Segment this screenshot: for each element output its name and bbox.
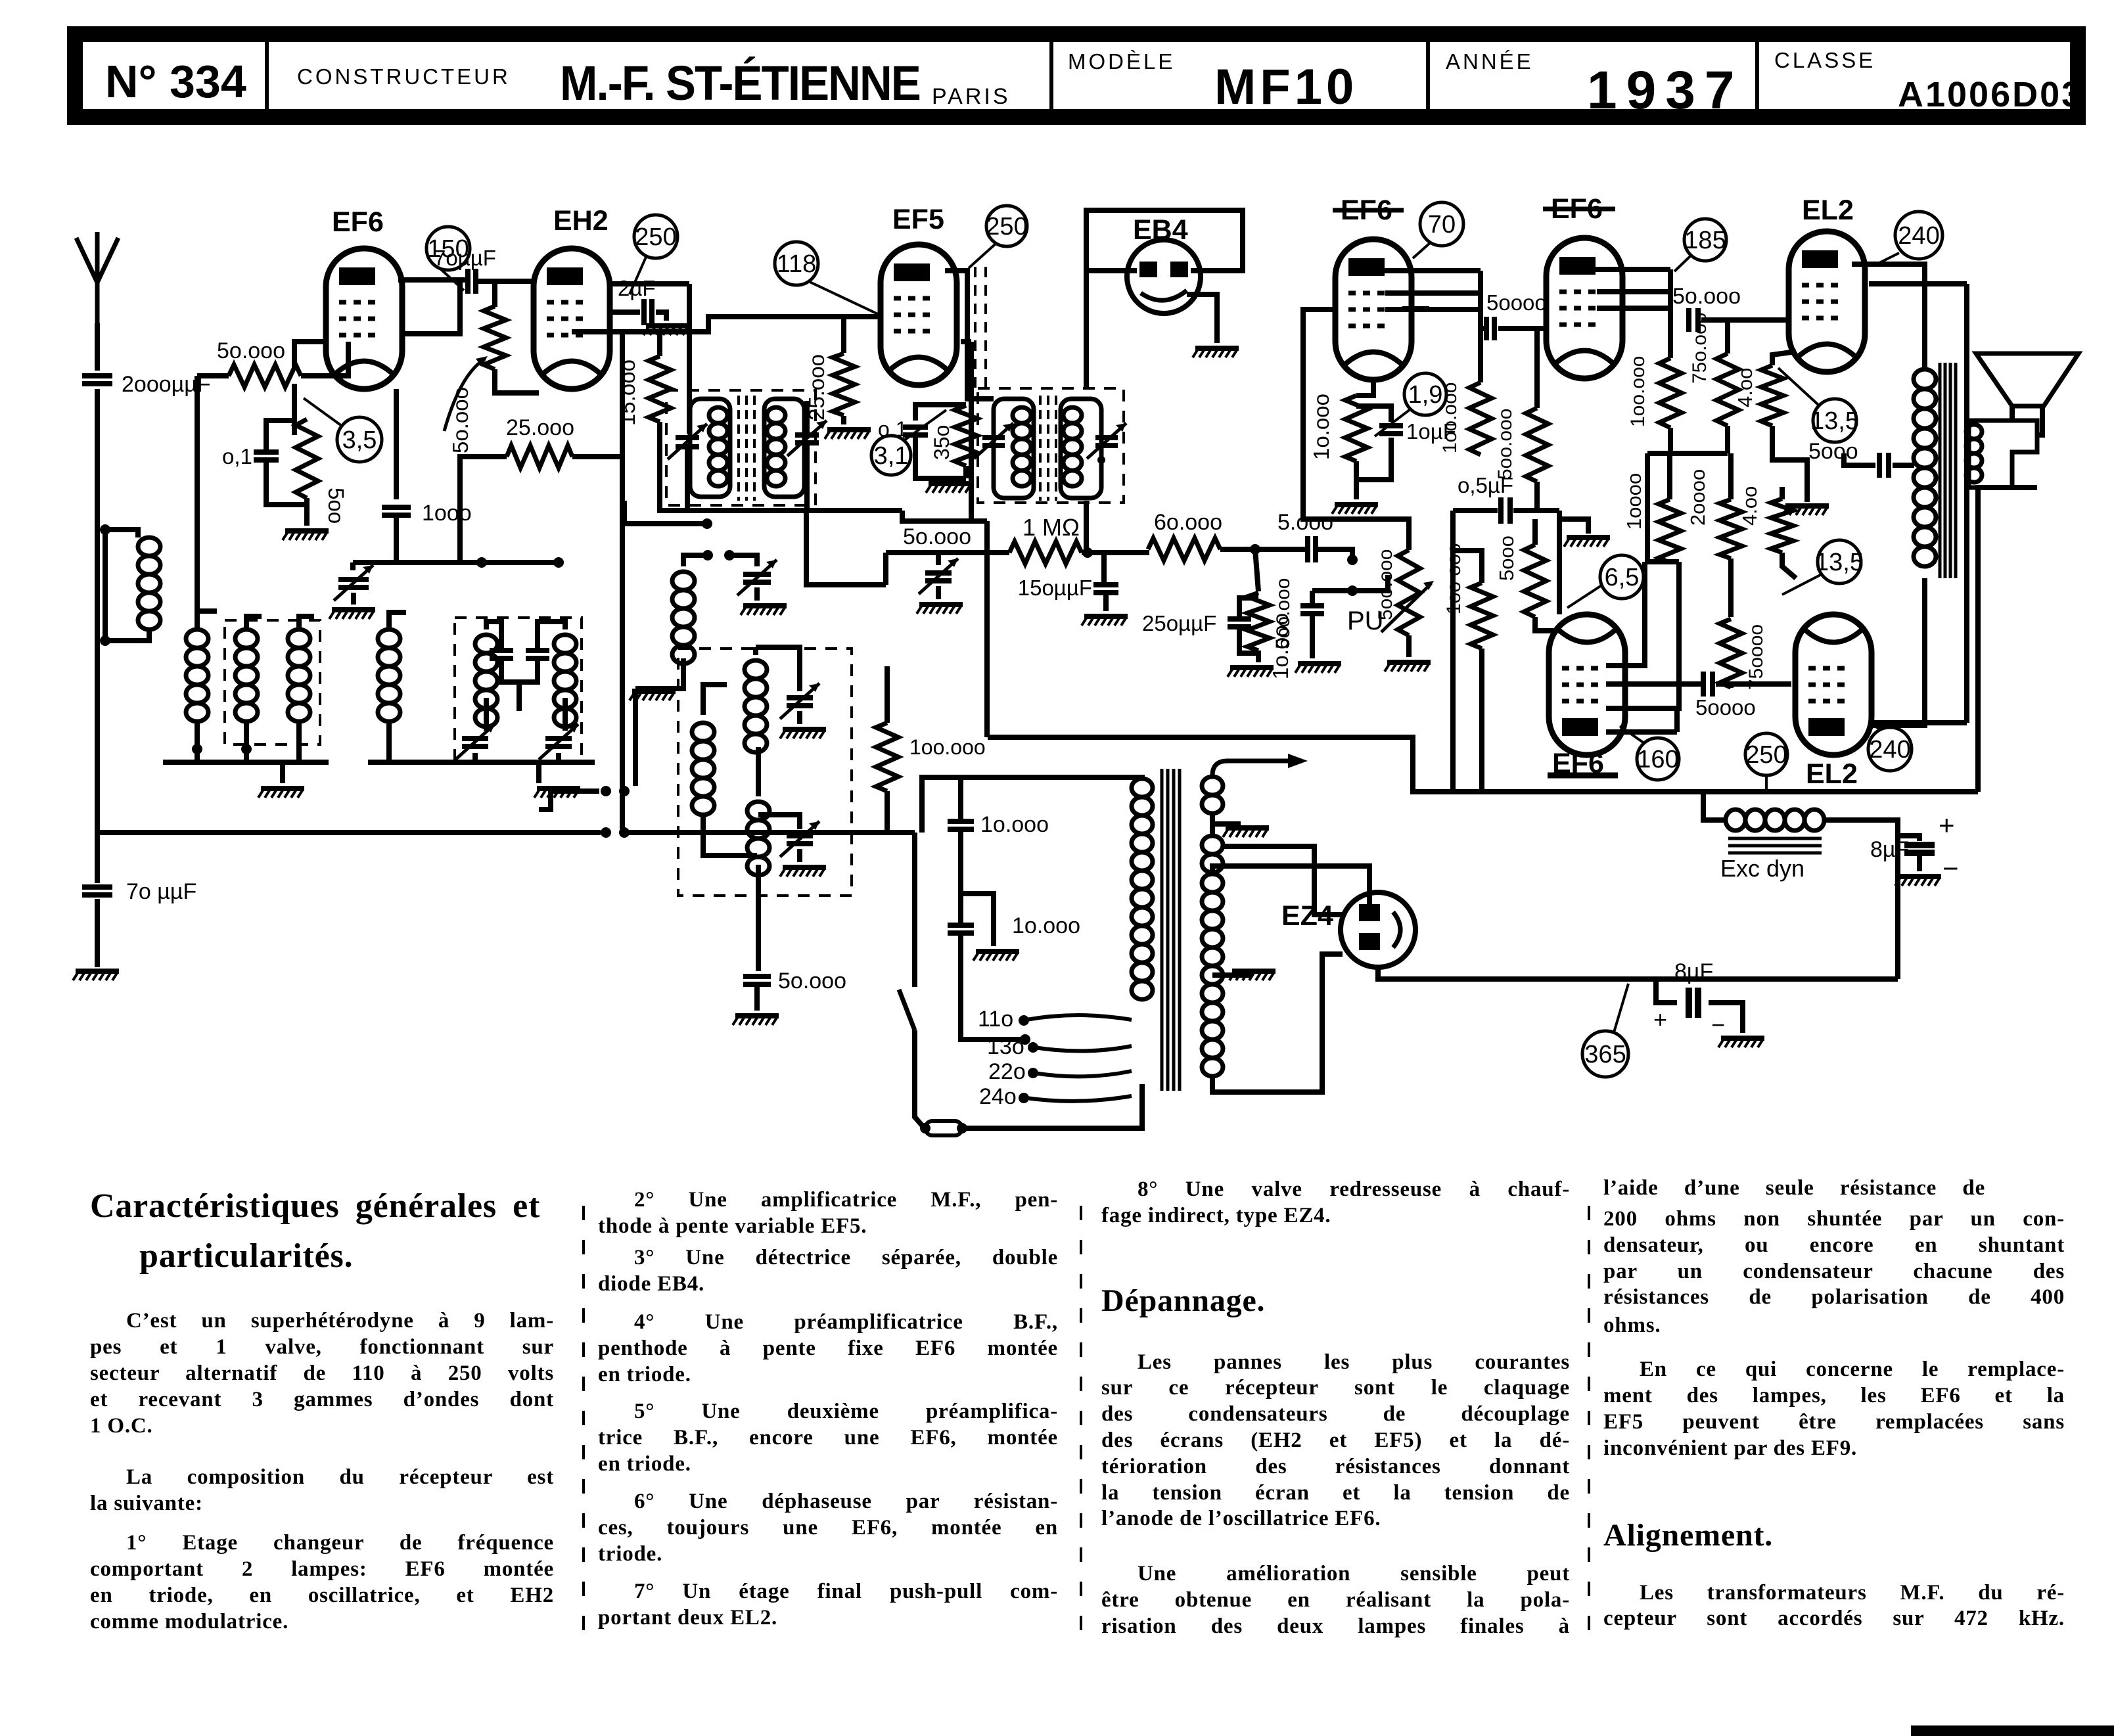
svg-text:1oo.ooo: 1oo.ooo — [1439, 382, 1461, 453]
IF2 core — [1039, 396, 1042, 501]
IF2 trimmer primary — [982, 438, 1005, 445]
tube EH2 modulator — [534, 248, 610, 389]
svg-text:5o.ooo: 5o.ooo — [1672, 284, 1741, 309]
resistor 750000 — [1720, 619, 1742, 687]
wire cathode network — [266, 460, 307, 505]
wire 05uF left — [1453, 508, 1498, 513]
mains switch — [912, 833, 917, 987]
osc coil left — [692, 723, 714, 741]
svg-text:1oooo: 1oooo — [1622, 473, 1645, 530]
svg-text:5ooo: 5ooo — [1808, 439, 1858, 464]
band coil 5 — [475, 635, 497, 653]
svg-text:2° Une amplificatrice M.F., pe: 2° Une amplificatrice M.F., pen- — [634, 1188, 1058, 1212]
ground mains caps — [976, 949, 1019, 954]
svg-text:6o.ooo: 6o.ooo — [1154, 510, 1222, 535]
ground osc 50000 — [735, 1013, 779, 1018]
svg-text:250: 250 — [635, 223, 676, 251]
choke Exc dyn — [1726, 810, 1745, 831]
IF2 shield extension — [974, 267, 977, 388]
svg-text:Une amélioration sensible peut: Une amélioration sensible peut — [1137, 1562, 1570, 1586]
osc coil right top — [745, 660, 767, 679]
svg-text:EH2: EH2 — [553, 205, 609, 237]
PU jack — [1347, 585, 1358, 596]
resistor 20000 splitter — [1720, 499, 1742, 559]
tube EL2 lower output — [1795, 614, 1872, 755]
band coil 6 — [554, 635, 576, 653]
wire HT bus lower — [988, 737, 1978, 792]
capacitor 1000 — [382, 507, 411, 515]
wire EH2 grid return bus — [572, 317, 881, 332]
svg-text:penthode à pente fixe EF6 mont: penthode à pente fixe EF6 montée — [598, 1336, 1058, 1360]
wire to PU switch — [1316, 549, 1352, 558]
svg-text:160: 160 — [1637, 746, 1678, 773]
resistor 5.000 splitter — [1524, 545, 1546, 617]
svg-text:185: 185 — [1684, 227, 1726, 254]
IF2 primary winding — [994, 399, 1034, 498]
svg-text:Les pannes les plus courantes: Les pannes les plus courantes — [1137, 1350, 1570, 1374]
header separator 4 — [1755, 34, 1759, 117]
circle 118 — [775, 242, 818, 285]
svg-text:l’anode de l’oscillatrice EF6.: l’anode de l’oscillatrice EF6. — [1101, 1507, 1381, 1530]
header separator 2 — [1049, 34, 1053, 117]
svg-text:EF6: EF6 — [1552, 748, 1604, 779]
svg-text:EF6: EF6 — [332, 206, 384, 238]
potentiometer 500.000 PU — [1398, 550, 1420, 635]
svg-text:5oo: 5oo — [324, 488, 348, 524]
ground 8uF main — [1898, 874, 1941, 879]
wire det node — [1082, 550, 1149, 555]
tube EF6 oscillator — [326, 248, 402, 389]
svg-text:la suivante:: la suivante: — [90, 1492, 203, 1515]
svg-text:+: + — [1653, 1006, 1667, 1033]
resistor 25.000 EF5 grid — [833, 354, 855, 415]
svg-text:35o: 35o — [930, 425, 954, 460]
svg-text:1° Etage changeur de fréquence: 1° Etage changeur de fréquence — [126, 1531, 554, 1555]
wire osc feed top — [624, 521, 704, 526]
capacitor 5.000 coupling — [1308, 536, 1316, 562]
wire grid node down — [301, 342, 348, 376]
svg-text:4° Une préamplificatrice B.F.,: 4° Une préamplificatrice B.F., — [634, 1310, 1058, 1334]
IF2 trimmer secondary — [1095, 438, 1118, 445]
resistor 100.000 splitter divider — [1471, 583, 1493, 649]
wire fuse to primary — [962, 1084, 1142, 1128]
ground tuning cap — [332, 607, 375, 612]
switch contacts 1 — [601, 786, 611, 796]
capacitor 10uF — [1379, 426, 1403, 434]
column separator 1 — [582, 1206, 585, 1643]
svg-text:trice B.F., encore une EF6, mo: trice B.F., encore une EF6, montée — [598, 1426, 1058, 1450]
wire 5000 cap — [1893, 463, 1914, 468]
svg-text:1o.ooo: 1o.ooo — [1268, 613, 1293, 679]
svg-text:Les transformateurs M.F. du ré: Les transformateurs M.F. du ré- — [1640, 1581, 2065, 1605]
svg-text:en triode.: en triode. — [598, 1452, 691, 1476]
svg-text:15.ooo: 15.ooo — [615, 359, 639, 426]
wire mains b down — [961, 933, 1025, 1039]
ground 25000b — [827, 427, 871, 432]
svg-text:risation des deux lampes final: risation des deux lampes finales à — [1101, 1614, 1570, 1638]
svg-text:6,5: 6,5 — [1605, 564, 1640, 591]
output transformer primary — [1914, 369, 1936, 389]
wire 25000 left — [460, 457, 507, 562]
svg-text:1ooo: 1ooo — [422, 501, 472, 526]
svg-text:5° Une deuxième préamplifica-: 5° Une deuxième préamplifica- — [634, 1400, 1058, 1423]
power transformer primary — [1132, 779, 1153, 797]
ground antenna — [76, 969, 119, 974]
circle 185 — [1684, 219, 1726, 261]
dashed box band B — [455, 618, 582, 762]
HT center tap — [1212, 969, 1250, 975]
svg-text:PARIS: PARIS — [932, 84, 1011, 109]
antenna coupling coil — [105, 530, 138, 537]
wire voice coil leads — [2010, 406, 2015, 421]
capacitor 10.000 mains b — [948, 925, 974, 933]
svg-text:1oo ooo: 1oo ooo — [1443, 543, 1465, 614]
svg-text:EF5: EF5 — [892, 204, 944, 235]
svg-text:1 O.C.: 1 O.C. — [90, 1414, 153, 1438]
svg-text:être obtenue en réalisant la p: être obtenue en réalisant la pola- — [1101, 1588, 1570, 1612]
ground EF5 cathode — [929, 481, 972, 486]
wire 25000 right to AVC bus — [572, 454, 622, 459]
svg-text:2µF: 2µF — [618, 276, 656, 300]
tube EB4 double diode — [1127, 240, 1201, 313]
circle 13,5 upper — [1813, 399, 1856, 442]
wire pot top to grid — [1303, 309, 1409, 550]
svg-text:densateur, ou encore en shunta: densateur, ou encore en shuntant — [1603, 1233, 2065, 1257]
svg-text:A1006D03: A1006D03 — [1898, 75, 2083, 114]
ground osc — [632, 689, 676, 694]
wire pot ground — [1406, 635, 1412, 657]
wire EH2 anode down IF1 — [687, 284, 692, 434]
wire EB4 cathode ground — [1187, 294, 1217, 343]
switch contacts 2 — [601, 827, 611, 838]
capacitor 70 uuF antenna — [82, 887, 112, 895]
svg-text:EF5 peuvent être remplacées sa: EF5 peuvent être remplacées sans — [1603, 1410, 2065, 1434]
resistor 10.000 splitter load a — [1659, 499, 1681, 562]
power transformer core — [1160, 769, 1164, 1091]
wire EF5 screen — [961, 339, 971, 344]
circle 3,1 — [871, 436, 911, 475]
svg-text:N° 334: N° 334 — [105, 56, 246, 107]
band coil 3 — [288, 629, 310, 648]
wire 1000 to grid bus — [394, 515, 399, 562]
wire 2uF — [610, 309, 640, 315]
circle 240 upper — [1895, 212, 1942, 259]
ground band A — [261, 786, 304, 791]
potentiometer 50.000 EH2 grid — [484, 306, 506, 369]
svg-text:5oooo: 5oooo — [1695, 695, 1756, 720]
heater winding EZ4 — [1202, 836, 1223, 854]
wire EF6c suppressor — [1402, 306, 1429, 311]
wire 5000 bottom — [1535, 617, 1559, 631]
wire 400 to EL2 cathode — [1772, 352, 1796, 365]
IF2 shield box — [978, 388, 1124, 503]
primary tap 130 — [1034, 1046, 1132, 1051]
header separator 3 — [1426, 34, 1430, 117]
heater winding top — [1202, 777, 1223, 795]
wire 25000b — [841, 317, 846, 353]
resistor 500 cathode — [296, 419, 318, 498]
resistor 50.000 grid leak — [229, 365, 301, 387]
capacitor 50.000 lower coupling — [1606, 681, 1701, 687]
svg-text:secteur alternatif de 110 à 25: secteur alternatif de 110 à 250 volts — [90, 1361, 554, 1385]
anode circle 150 — [426, 227, 470, 270]
band coil 2 — [235, 629, 258, 648]
svg-text:250: 250 — [986, 213, 1027, 240]
trimmer band B — [545, 739, 572, 746]
tube EF6 second BF — [1546, 238, 1622, 378]
svg-text:comme modulatrice.: comme modulatrice. — [90, 1610, 288, 1633]
svg-text:1o.ooo: 1o.ooo — [1012, 913, 1080, 938]
svg-text:70: 70 — [1428, 211, 1456, 239]
svg-text:EB4: EB4 — [1133, 214, 1188, 246]
svg-text:24o: 24o — [979, 1084, 1017, 1109]
svg-text:fage indirect, type EZ4.: fage indirect, type EZ4. — [1101, 1204, 1331, 1227]
svg-text:MF10: MF10 — [1214, 59, 1358, 115]
svg-text:diode EB4.: diode EB4. — [598, 1272, 704, 1296]
ground osc varcap — [743, 603, 787, 608]
svg-text:5o.ooo: 5o.ooo — [448, 387, 472, 453]
wire EL2 lower screen — [1872, 720, 1967, 725]
svg-text:triode.: triode. — [598, 1542, 662, 1566]
wire EZ4 heater feed — [1223, 846, 1343, 915]
trimmer band A — [462, 739, 488, 746]
svg-text:o,5µF: o,5µF — [1458, 473, 1513, 497]
svg-text:inconvénient par des EF9.: inconvénient par des EF9. — [1603, 1436, 1857, 1460]
wire splitter anode — [1606, 729, 1677, 735]
svg-text:ment des lampes, les EF6 et la: ment des lampes, les EF6 et la — [1603, 1384, 2065, 1407]
wire osc cathode vertical — [633, 689, 638, 786]
svg-text:75o.ooo: 75o.ooo — [1689, 313, 1711, 384]
svg-text:15oµµF: 15oµµF — [1018, 576, 1092, 600]
svg-text:4.oo: 4.oo — [1738, 486, 1761, 526]
svg-text:365: 365 — [1584, 1041, 1626, 1068]
svg-text:2oooo: 2oooo — [1686, 469, 1709, 526]
column separator 2 — [1080, 1206, 1082, 1643]
capacitor 50.000 coupling cd — [1486, 317, 1494, 340]
svg-text:térioration des résistances do: térioration des résistances donnant — [1101, 1455, 1570, 1478]
capacitor 70uuF coupling — [468, 269, 476, 294]
tube EF6 first BF — [1335, 239, 1412, 380]
capacitor 0,1 EF5 cathode — [903, 427, 928, 435]
osc trimmer bottom — [787, 836, 813, 844]
wire EZ4 anode top — [1224, 866, 1369, 904]
svg-text:Exc dyn: Exc dyn — [1720, 855, 1804, 882]
circle 13,5 lower — [1818, 540, 1861, 583]
svg-text:ohms.: ohms. — [1603, 1313, 1661, 1337]
svg-text:particularités.: particularités. — [139, 1237, 353, 1275]
svg-text:6° Une déphaseuse par résistan: 6° Une déphaseuse par résistan- — [634, 1490, 1058, 1513]
svg-text:5o.ooo: 5o.ooo — [778, 969, 846, 994]
svg-text:3,1: 3,1 — [874, 442, 909, 470]
circle 250 lower — [1745, 733, 1787, 775]
circle 160 — [1637, 738, 1679, 780]
wire EF6c anode strap — [1384, 268, 1481, 273]
resistor 10.000 cathode — [1345, 396, 1367, 461]
wire HT bottom to EZ4 — [1212, 954, 1343, 1092]
IF1 shield box — [666, 390, 816, 505]
svg-text:25oµµF: 25oµµF — [1142, 611, 1216, 635]
output transformer core — [1939, 363, 1942, 578]
svg-text:Alignement.: Alignement. — [1603, 1518, 1773, 1553]
ground pot — [1387, 660, 1431, 665]
svg-text:5o.ooo: 5o.ooo — [903, 524, 971, 549]
svg-text:75oooo: 75oooo — [1745, 624, 1767, 690]
wire EF6 grid left — [294, 342, 326, 368]
capacitor 8uF second — [1656, 979, 1677, 1003]
svg-text:7° Un étage final push-pull co: 7° Un étage final push-pull com- — [634, 1580, 1058, 1603]
svg-text:4.oo: 4.oo — [1734, 368, 1757, 407]
wire AVC vertical — [620, 332, 625, 829]
tube EF6 phase splitter — [1549, 614, 1625, 755]
capacitor 10.000 PU — [1312, 588, 1352, 593]
primary tap 220 — [1034, 1071, 1132, 1076]
ground band B — [537, 786, 580, 791]
wire grid res to coil line — [197, 373, 229, 378]
svg-text:−: − — [1942, 853, 1959, 884]
svg-text:5o.ooo: 5o.ooo — [217, 338, 285, 363]
svg-text:ces, toujours une EF6, montée: ces, toujours une EF6, montée en — [598, 1516, 1058, 1540]
IF1 trimmer secondary — [804, 401, 810, 434]
svg-text:200 ohms non shuntée par un co: 200 ohms non shuntée par un con- — [1603, 1207, 2065, 1231]
wire splitter verticals — [1645, 559, 1679, 564]
IF1 secondary winding — [764, 399, 804, 497]
IF1 core — [737, 396, 740, 501]
wire 100k-75k bottoms — [1668, 428, 1673, 453]
svg-text:Dépannage.: Dépannage. — [1101, 1283, 1265, 1318]
primary tap 110 — [1026, 1015, 1132, 1020]
wire 5000 top — [1532, 519, 1538, 545]
wire anode branch to tube — [403, 281, 460, 334]
ground 8uF second — [1721, 1036, 1764, 1041]
ground 2uF — [646, 323, 689, 329]
svg-text:EL2: EL2 — [1806, 758, 1858, 790]
ground 400 — [1785, 503, 1829, 509]
svg-text:25.ooo: 25.ooo — [804, 354, 829, 421]
HT secondary winding — [1202, 874, 1223, 892]
wire IF1 bottom rail — [657, 508, 902, 513]
svg-text:+: + — [1939, 810, 1955, 840]
wire 10000b ground — [961, 894, 994, 946]
wire AVC det line — [886, 550, 1009, 555]
wire bus to switch — [670, 830, 915, 835]
resistor 1 MOhm — [1009, 541, 1082, 564]
svg-text:l’aide d’une seule résistan: l’aide d’une seule résistance de — [1603, 1176, 1985, 1200]
tube EF5 IF amplifier — [881, 244, 957, 385]
svg-text:1oo.ooo: 1oo.ooo — [1627, 356, 1649, 427]
svg-text:o,1: o,1 — [222, 444, 252, 468]
svg-text:La composition du récepteur es: La composition du récepteur est — [126, 1465, 554, 1489]
wire exc dyn right — [1824, 820, 1898, 979]
header separator 1 — [265, 34, 269, 117]
wire to ground — [95, 899, 100, 967]
osc trimmer top — [787, 698, 813, 706]
variable tuning capacitor antenna — [350, 562, 356, 570]
svg-text:3° Une détectrice séparée, dou: 3° Une détectrice séparée, double — [634, 1246, 1058, 1269]
circle 365 — [1582, 1031, 1628, 1077]
svg-text:3,5: 3,5 — [342, 426, 377, 454]
IF1 primary winding — [690, 399, 730, 497]
resistor 350 EF5 cathode — [955, 405, 977, 466]
svg-text:1o.ooo: 1o.ooo — [980, 812, 1049, 837]
circle 70 — [1420, 202, 1463, 246]
wire primary top — [922, 777, 1142, 833]
wire 20000 bottom — [1728, 559, 1734, 617]
circle 240 lower — [1868, 727, 1912, 771]
ground 150uuF — [1084, 614, 1128, 619]
header box — [75, 34, 2078, 117]
resistor 400 lower — [1771, 499, 1793, 553]
capacitor 50.000 coupling dEL2 — [1689, 308, 1698, 332]
resistor 100.000 anode load EF6c — [1469, 382, 1492, 455]
svg-text:13,5: 13,5 — [1810, 407, 1859, 435]
wire EB4 output down — [1084, 501, 1089, 553]
speaker voice coil — [1969, 421, 2037, 488]
wire EL2 screen — [1869, 281, 1967, 286]
svg-text:5oo.ooo: 5oo.ooo — [1494, 409, 1516, 480]
svg-text:M.-F. ST-ÉTIENNE: M.-F. ST-ÉTIENNE — [560, 56, 920, 110]
svg-text:1,9: 1,9 — [1408, 381, 1443, 409]
wire pot bottom — [495, 369, 539, 393]
svg-text:240: 240 — [1869, 736, 1910, 764]
heater arrow — [1212, 761, 1300, 775]
resistor 15.000 screen feed — [649, 356, 671, 422]
IF2 secondary winding — [1061, 399, 1101, 498]
wire EB4 frame — [1086, 210, 1243, 388]
resistor 400 bias upper — [1761, 365, 1783, 426]
svg-text:thode à pente variable EF5.: thode à pente variable EF5. — [598, 1214, 867, 1238]
wire 15000 — [657, 332, 662, 356]
wire osc bottom out — [756, 865, 761, 971]
svg-text:des condensateurs de découplag: des condensateurs de découplage — [1101, 1402, 1570, 1426]
svg-text:1o.ooo: 1o.ooo — [1309, 394, 1333, 460]
svg-text:1oo.ooo: 1oo.ooo — [909, 735, 986, 759]
capacitor 5000 tone — [1879, 453, 1889, 478]
padding capacitors — [490, 651, 513, 658]
ground det cap — [919, 602, 963, 607]
wire osc anode net — [885, 666, 890, 723]
svg-text:cepteur sont accordés sur 472: cepteur sont accordés sur 472 kHz. — [1603, 1607, 2065, 1630]
svg-text:et recevant 3 gammes d’ondes d: et recevant 3 gammes d’ondes dont — [90, 1388, 554, 1411]
wire EL2 anode to transformer — [1852, 264, 1925, 369]
wire mains caps — [958, 777, 963, 821]
wire tube bottom to 1000 — [394, 389, 399, 499]
band coil 1 — [186, 629, 208, 648]
wire oscillator grid bus — [353, 560, 559, 565]
svg-text:13,5: 13,5 — [1815, 549, 1864, 576]
tube EZ4 rectifier — [1341, 892, 1415, 967]
svg-text:8µF: 8µF — [1674, 959, 1713, 984]
ground EB4 — [1195, 346, 1239, 351]
ground 05uF — [1559, 519, 1588, 534]
wire B+ riser — [984, 521, 990, 737]
capacitor 2000 uuF — [82, 376, 112, 384]
wire 8uF second ground — [1709, 1003, 1743, 1033]
ground cathode EF6 — [285, 528, 329, 534]
wire HT top — [1212, 866, 1224, 874]
wire pot to grid — [492, 281, 497, 307]
resistor 500.000 screen EF6c — [1526, 408, 1548, 482]
svg-text:25.ooo: 25.ooo — [506, 415, 574, 440]
wire EL2 lower anode — [1870, 578, 1925, 725]
svg-text:MODÈLE: MODÈLE — [1068, 49, 1175, 74]
wire antenna line down — [95, 389, 100, 883]
svg-text:250: 250 — [1745, 741, 1787, 769]
wire coupling to EL2 grid — [1701, 317, 1791, 323]
wire exc dyn feed — [1703, 792, 1726, 820]
antenna — [76, 232, 118, 323]
svg-text:C’est un superhétérodyne à 9 l: C’est un superhétérodyne à 9 lam- — [126, 1309, 554, 1333]
column separator 3 — [1588, 1206, 1590, 1643]
